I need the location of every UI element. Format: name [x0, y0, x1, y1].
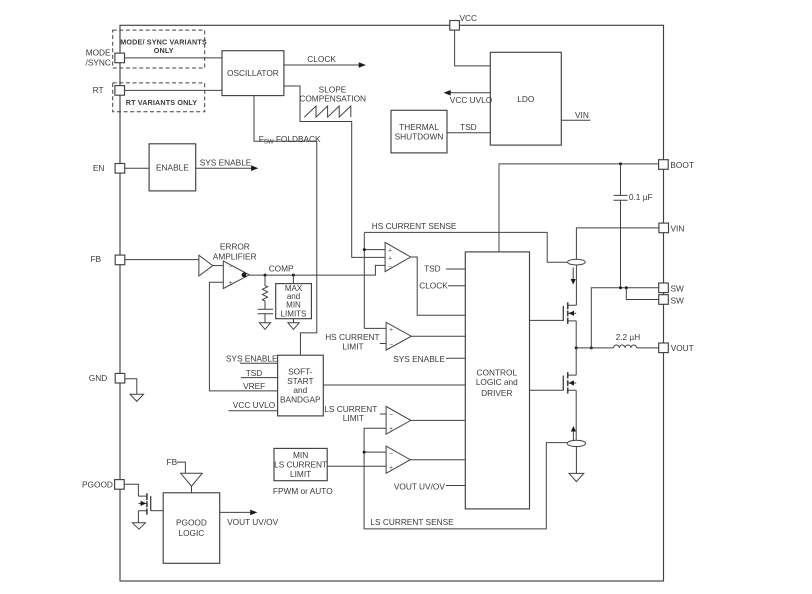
svg-text:FB: FB	[90, 254, 101, 264]
svg-text:−: −	[389, 451, 393, 458]
svg-text:MIN: MIN	[286, 301, 301, 310]
LS current sense element	[567, 426, 585, 447]
wire GND pin to ground	[125, 379, 137, 394]
wire BOOT to control logic	[499, 164, 659, 252]
svg-text:FSW FOLDBACK: FSW FOLDBACK	[259, 134, 321, 146]
pin VOUT	[659, 343, 694, 353]
svg-text:VCC UVLO: VCC UVLO	[450, 95, 493, 105]
wire FB pin to buffer	[125, 259, 199, 261]
node COMP junction to max/min limits	[292, 274, 295, 277]
thermal shutdown block	[391, 110, 447, 153]
pin EN	[93, 163, 125, 173]
svg-text:VOUT: VOUT	[671, 343, 694, 353]
wire CLOCK output arrow	[284, 54, 366, 68]
min LS current limit block	[273, 448, 333, 496]
wire SW pins to SW node	[591, 286, 658, 348]
label VREF into soft-start	[243, 381, 265, 391]
op-amp MIN LS current limit comparator	[386, 446, 410, 473]
transistor Q2 low-side FET	[563, 372, 576, 394]
svg-text:SW: SW	[671, 284, 685, 294]
pin MODE/SYNC	[86, 47, 125, 67]
wire TSD input to control logic	[424, 264, 465, 274]
wire PGOOD FET source to ground	[137, 511, 139, 523]
wire LS sense to power ground	[575, 447, 577, 474]
wire HS FET source to SW node	[575, 321, 577, 348]
svg-text:RT VARIANTS ONLY: RT VARIANTS ONLY	[126, 98, 198, 107]
svg-text:VOUT UV/OV: VOUT UV/OV	[227, 517, 278, 527]
svg-text:+: +	[229, 280, 233, 287]
dashed box RT variants only	[113, 83, 205, 112]
wire buffer to error amplifier	[213, 265, 224, 267]
svg-text:+: +	[388, 247, 392, 254]
svg-text:LS CURRENT SENSE: LS CURRENT SENSE	[370, 517, 454, 527]
pin SW upper	[659, 283, 684, 294]
svg-text:SHUTDOWN: SHUTDOWN	[395, 132, 444, 142]
svg-text:EN: EN	[93, 163, 105, 173]
svg-text:VCC: VCC	[460, 13, 478, 23]
wire LS current sense vertical and taps	[363, 428, 568, 529]
ground at PGOOD FET	[132, 523, 145, 529]
svg-text:ERROR: ERROR	[220, 242, 250, 252]
wire FB into comparator triangle	[167, 457, 186, 473]
wire VOUT UV/OV output arrow from PGOOD logic	[220, 510, 279, 527]
pin VCC	[450, 13, 477, 30]
pin SW lower	[659, 295, 684, 306]
svg-text:−: −	[229, 264, 233, 271]
wire HS sense to HS FET drain	[575, 265, 577, 305]
wire TSD into soft-start	[241, 368, 278, 378]
svg-text:FPWM or AUTO: FPWM or AUTO	[273, 486, 333, 496]
comparator triangle above PGOOD logic	[181, 473, 203, 493]
svg-text:LIMIT: LIMIT	[290, 469, 311, 479]
svg-text:LIMIT: LIMIT	[342, 342, 363, 352]
pin GND	[89, 373, 125, 383]
wire soft-start output to control logic	[323, 384, 465, 386]
svg-text:−: −	[389, 342, 393, 349]
svg-text:LOGIC: LOGIC	[178, 528, 204, 538]
node junction HS sense	[363, 248, 366, 251]
wire EN pin to enable block	[125, 167, 150, 169]
svg-text:ENABLE: ENABLE	[156, 162, 189, 172]
transistor Q3 PGOOD pull-down FET	[138, 493, 150, 514]
svg-text:+: +	[389, 327, 393, 334]
control logic and driver block	[465, 252, 529, 509]
capacitor C-BOOT 0.1uF	[614, 164, 653, 288]
svg-text:RT: RT	[93, 85, 104, 95]
svg-text:+: +	[388, 255, 392, 262]
wire VCC UVLO output arrow (left)	[444, 90, 493, 105]
enable block	[149, 144, 196, 191]
wire LS FET source to LS sense element	[575, 390, 577, 440]
wire Fsw foldback from oscillator to soft-start	[254, 96, 321, 356]
svg-text:VIN: VIN	[671, 223, 685, 233]
wire RT pin to oscillator	[125, 89, 223, 91]
pin BOOT	[659, 160, 694, 171]
wire SYS ENABLE input to control logic	[393, 354, 465, 364]
svg-text:DRIVER: DRIVER	[481, 388, 512, 398]
svg-text:PGOOD: PGOOD	[82, 480, 113, 490]
wire VIN pin to HS sense element	[576, 228, 659, 259]
svg-text:ONLY: ONLY	[154, 46, 174, 55]
ground at GND pin	[130, 394, 144, 401]
inductor L1 2.2uH	[614, 332, 659, 348]
svg-text:OSCILLATOR: OSCILLATOR	[227, 68, 279, 78]
op-amp LS current limit comparator	[324, 404, 411, 434]
wire LS current limit output to control logic	[411, 419, 466, 421]
ground power stage	[569, 473, 584, 481]
op-amp HS current sense comparator	[385, 242, 411, 271]
pin VIN	[659, 223, 684, 233]
svg-text:CLOCK: CLOCK	[419, 280, 448, 290]
svg-text:HS CURRENT SENSE: HS CURRENT SENSE	[372, 221, 457, 231]
svg-text:MODE: MODE	[86, 47, 111, 57]
svg-text:VOUT UV/OV: VOUT UV/OV	[394, 482, 445, 492]
wire VOUT UV/OV input to control logic	[394, 482, 465, 492]
wire HS sense vertical to comparator inputs	[364, 232, 386, 328]
svg-text:TSD: TSD	[460, 122, 477, 132]
wire MODE/SYNC pin to oscillator	[125, 57, 223, 59]
svg-text:−: −	[388, 264, 392, 271]
svg-text:BOOT: BOOT	[670, 160, 694, 170]
HS current sense element	[568, 259, 586, 284]
svg-text:VIN: VIN	[575, 110, 589, 120]
resistor on COMP	[262, 275, 267, 302]
IC outer boundary box	[120, 25, 664, 581]
wire VCC UVLO into soft-start	[228, 400, 277, 411]
dashed box MODE/SYNC variants only	[113, 30, 207, 68]
wire VCC pin into LDO	[455, 30, 491, 66]
transistor Q1 high-side FET	[563, 302, 576, 324]
wire LS gate from control logic	[530, 389, 564, 391]
node SW junction	[575, 346, 593, 349]
svg-text:2.2 µH: 2.2 µH	[616, 332, 641, 342]
svg-text:AMPLIFIER: AMPLIFIER	[213, 252, 257, 262]
node junction BOOT/cap	[619, 162, 622, 165]
wire HS gate from control logic	[530, 319, 564, 321]
error amplifier U-EA	[213, 242, 257, 289]
wire VIN stub from LDO	[561, 110, 590, 120]
svg-text:/SYNC: /SYNC	[86, 57, 111, 67]
svg-text:COMP: COMP	[269, 264, 294, 274]
wire HS current sense line to sense element	[364, 221, 567, 262]
wire COMP node to HS comparator - input	[249, 264, 385, 276]
op-amp HS current limit comparator	[325, 322, 411, 351]
svg-text:LIMITS: LIMITS	[281, 309, 307, 318]
wire oscillator to slope compensation to HS comparator	[284, 86, 385, 257]
wire VREF from soft-start to error amp + input	[209, 282, 277, 391]
svg-text:SYS ENABLE: SYS ENABLE	[393, 354, 445, 364]
svg-text:PGOOD: PGOOD	[176, 518, 207, 528]
ground below COMP RC	[259, 323, 270, 330]
svg-text:−: −	[389, 412, 393, 419]
wire HS current limit output to control logic	[411, 335, 465, 337]
svg-text:TSD: TSD	[246, 368, 263, 378]
svg-text:0.1 µF: 0.1 µF	[629, 192, 653, 202]
svg-text:COMPENSATION: COMPENSATION	[299, 94, 366, 104]
pin FB	[90, 254, 124, 265]
svg-text:+: +	[389, 465, 393, 472]
PGOOD logic block	[163, 493, 220, 564]
max and min limits block	[276, 275, 312, 323]
svg-text:TSD: TSD	[424, 264, 441, 274]
wire SYS ENABLE into soft-start	[226, 354, 278, 364]
buffer triangle at FB	[199, 255, 213, 276]
pin PGOOD	[82, 480, 124, 490]
svg-text:GND: GND	[89, 373, 107, 383]
svg-text:SYS ENABLE: SYS ENABLE	[226, 354, 278, 364]
svg-text:CONTROL: CONTROL	[477, 367, 518, 377]
svg-text:THERMAL: THERMAL	[399, 122, 439, 132]
wire SYS ENABLE output arrow	[196, 158, 259, 171]
svg-text:+: +	[389, 426, 393, 433]
wire TSD thermal shutdown to LDO	[447, 122, 490, 133]
svg-text:HS CURRENT: HS CURRENT	[325, 332, 379, 342]
svg-text:VCC UVLO: VCC UVLO	[233, 400, 276, 410]
wire MIN LS comparator output to control logic	[410, 459, 465, 461]
wire LS FET drain from SW node	[575, 348, 577, 375]
svg-text:LDO: LDO	[517, 94, 535, 104]
oscillator U-OSC	[222, 51, 284, 96]
soft-start and bandgap block	[278, 355, 324, 416]
svg-text:SYS ENABLE: SYS ENABLE	[200, 158, 252, 168]
svg-text:BANDGAP: BANDGAP	[280, 395, 321, 405]
svg-text:VREF: VREF	[243, 381, 265, 391]
LDO U-LDO	[490, 52, 561, 145]
svg-text:LIMIT: LIMIT	[343, 413, 364, 423]
wire PGOOD gate to pgood logic	[151, 510, 164, 512]
svg-text:CLOCK: CLOCK	[307, 54, 336, 64]
pin RT	[93, 85, 125, 95]
svg-text:and: and	[293, 385, 307, 395]
node COMP junction to resistor	[264, 274, 267, 277]
wire CLOCK input to control logic	[419, 280, 465, 290]
ground below max/min limits	[288, 323, 299, 330]
wire HS sense comparator output to control logic	[411, 257, 466, 315]
slope compensation sawtooth symbol	[299, 85, 366, 117]
svg-text:SW: SW	[671, 296, 685, 306]
wire SW node to inductor	[576, 347, 613, 349]
wire PGOOD pin to pull-down FET drain	[124, 484, 138, 496]
svg-text:LOGIC and: LOGIC and	[476, 377, 518, 387]
wire min LS block to MIN LS comparator + input	[327, 465, 386, 467]
capacitor on COMP	[258, 303, 273, 323]
svg-text:FB: FB	[167, 457, 178, 467]
